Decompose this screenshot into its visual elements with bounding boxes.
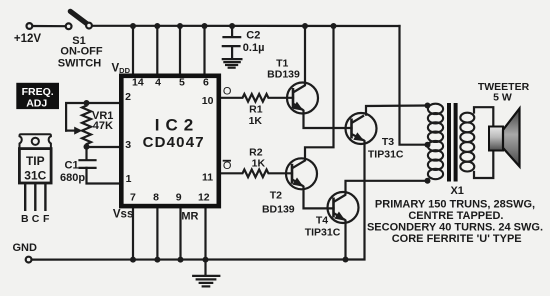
svg-text:ADJ: ADJ — [26, 98, 47, 110]
svg-text:CORE FERRITE 'U' TYPE: CORE FERRITE 'U' TYPE — [392, 233, 522, 245]
svg-text:MR: MR — [181, 211, 198, 223]
svg-text:X1: X1 — [450, 185, 463, 197]
svg-text:31C: 31C — [24, 169, 46, 183]
svg-text:1: 1 — [126, 173, 132, 185]
svg-text:C1: C1 — [65, 159, 79, 171]
svg-text:5: 5 — [179, 77, 185, 89]
svg-text:3: 3 — [125, 139, 131, 151]
svg-text:BD139: BD139 — [262, 204, 295, 216]
svg-text:ON-OFF: ON-OFF — [60, 46, 102, 58]
svg-text:4: 4 — [155, 77, 161, 89]
svg-text:8: 8 — [153, 192, 159, 204]
svg-text:O: O — [223, 160, 232, 172]
svg-text:SWITCH: SWITCH — [58, 58, 101, 70]
svg-text:O: O — [223, 86, 232, 98]
svg-text:SECONDERY 40 TURNS. 24 SWG.: SECONDERY 40 TURNS. 24 SWG. — [367, 221, 543, 233]
svg-text:IC2: IC2 — [155, 115, 199, 134]
svg-text:CD4047: CD4047 — [143, 134, 205, 151]
svg-text:10: 10 — [202, 95, 214, 107]
svg-text:TIP31C: TIP31C — [368, 149, 404, 161]
svg-text:TIP: TIP — [26, 154, 45, 168]
svg-text:T1: T1 — [276, 57, 288, 69]
svg-text:B: B — [21, 213, 29, 225]
svg-text:T4: T4 — [316, 215, 328, 227]
svg-text:R2: R2 — [249, 146, 263, 158]
svg-text:5 W: 5 W — [493, 91, 512, 103]
svg-text:47K: 47K — [93, 120, 113, 132]
svg-text:F: F — [43, 213, 50, 225]
svg-text:0.1µ: 0.1µ — [243, 42, 265, 54]
svg-text:6: 6 — [203, 77, 209, 89]
svg-text:T3: T3 — [382, 136, 394, 148]
svg-text:CENTRE TAPPED.: CENTRE TAPPED. — [408, 210, 503, 222]
svg-text:PRIMARY 150 TRUNS, 28SWG,: PRIMARY 150 TRUNS, 28SWG, — [375, 199, 535, 211]
svg-text:Vss: Vss — [113, 209, 133, 221]
svg-text:BD139: BD139 — [267, 69, 300, 81]
svg-text:T2: T2 — [270, 189, 282, 201]
svg-text:12: 12 — [198, 192, 210, 204]
svg-text:FREQ.: FREQ. — [22, 86, 54, 98]
svg-text:9: 9 — [176, 192, 182, 204]
svg-text:11: 11 — [202, 171, 213, 183]
svg-text:14: 14 — [132, 77, 144, 89]
svg-text:7: 7 — [130, 192, 136, 204]
svg-text:2: 2 — [125, 91, 131, 103]
svg-text:R1: R1 — [249, 104, 263, 116]
svg-text:680p: 680p — [60, 172, 85, 184]
svg-text:TIP31C: TIP31C — [305, 226, 341, 238]
svg-text:C2: C2 — [246, 29, 260, 41]
svg-text:C: C — [32, 213, 40, 225]
svg-text:1K: 1K — [252, 158, 266, 170]
svg-text:GND: GND — [13, 242, 38, 254]
svg-text:+12V: +12V — [14, 33, 42, 45]
svg-text:1K: 1K — [249, 115, 263, 127]
